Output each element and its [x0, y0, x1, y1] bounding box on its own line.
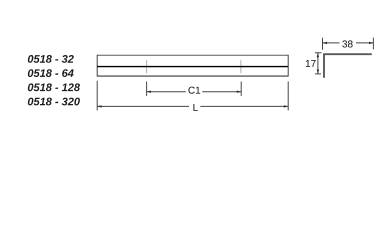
handle front view bottom edge [97, 75, 289, 77]
code 0518-128 [28, 83, 80, 91]
L arrowheads [97, 105, 288, 107]
handle front view left edge [96, 55, 98, 77]
38 dimension line [323, 42, 374, 44]
label L [193, 104, 197, 111]
C1 extension line left [146, 82, 148, 96]
C1 arrowheads [147, 91, 242, 93]
handle side profile [324, 54, 372, 78]
L extension line left [96, 81, 98, 111]
handle front edge line [97, 66, 288, 68]
code 0518-320 [28, 98, 80, 106]
C1 dimension line [147, 91, 242, 93]
L dimension line [97, 105, 288, 107]
17 extension stub bottom [315, 73, 321, 75]
hole center mark right [235, 60, 248, 73]
code 0518-64 [28, 69, 74, 77]
handle front view top edge [97, 54, 288, 56]
C1 extension line right [240, 82, 242, 96]
label C1 [188, 87, 200, 94]
17 dimension line [317, 53, 319, 74]
handle front view right edge [287, 55, 289, 77]
L extension line right [287, 81, 289, 110]
38 extension line left [322, 38, 324, 50]
code 0518-32 [28, 55, 74, 63]
38 arrowheads [323, 42, 374, 44]
label 17 [306, 60, 316, 67]
label 38 [342, 40, 352, 47]
hole center mark left [140, 60, 153, 73]
38 extension line right [372, 38, 374, 50]
17 arrowheads [317, 53, 319, 74]
17 extension stub top [315, 52, 322, 54]
